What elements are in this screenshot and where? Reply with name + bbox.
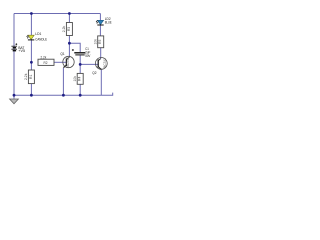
svg-text:R4: R4 [78,77,82,81]
svg-text:R5: R5 [98,40,102,44]
svg-text:+V5: +V5 [18,49,25,53]
svg-text:BC547: BC547 [103,57,107,68]
svg-text:Q2: Q2 [92,71,96,75]
svg-text:2.2k: 2.2k [41,56,47,60]
svg-text:R1: R1 [29,75,33,79]
svg-text:Q1: Q1 [60,52,64,56]
svg-text:2.2k: 2.2k [62,25,66,32]
svg-text:2.2k: 2.2k [24,73,28,80]
svg-text:LD1: LD1 [35,32,41,36]
svg-text:BLUE: BLUE [105,20,112,24]
svg-text:10k: 10k [94,39,98,45]
svg-text:R3: R3 [67,27,71,31]
svg-text:CANDLE: CANDLE [35,37,47,41]
svg-text:50V: 50V [85,54,91,58]
svg-text:BC547: BC547 [66,57,70,68]
svg-text:10k: 10k [73,76,77,82]
svg-text:R2: R2 [44,61,48,65]
